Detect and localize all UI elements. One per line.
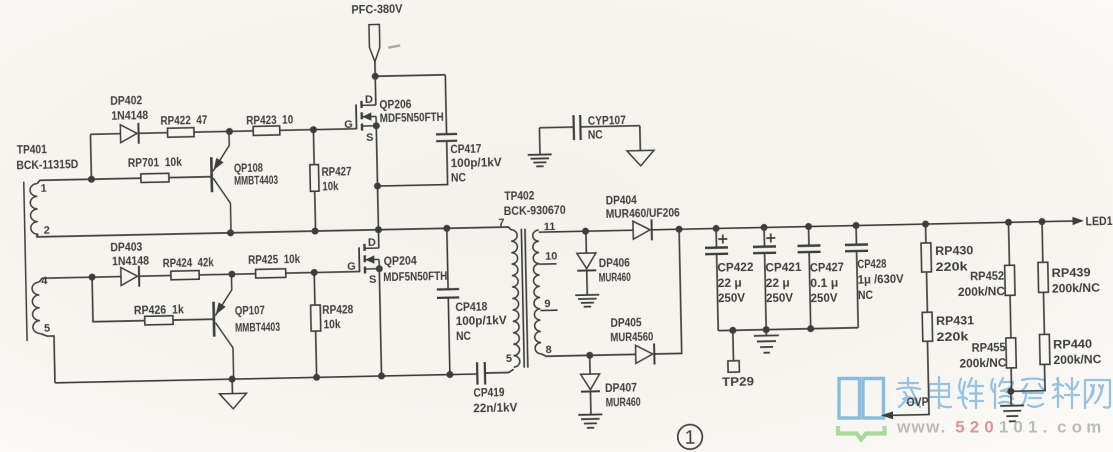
- svg-text:m: m: [1086, 418, 1101, 437]
- label MDF5N50FTH QP206: [380, 110, 444, 125]
- svg-text:MUR460: MUR460: [599, 270, 631, 285]
- junction rail / RP452: [1005, 219, 1012, 226]
- label CP419: [473, 385, 505, 400]
- svg-text:10: 10: [545, 250, 557, 262]
- wire RP423 to gate: [280, 129, 357, 131]
- polarity + CP422: [718, 234, 727, 243]
- resistor RP422: [167, 128, 194, 138]
- capacitor CP419: [477, 362, 485, 385]
- wire capacitor bus: [718, 328, 858, 331]
- svg-text:.: .: [1043, 418, 1048, 437]
- pin 5 TP401: [44, 322, 50, 334]
- junction bottom row / RP428: [313, 374, 320, 381]
- wire CP428 bottom lead: [857, 251, 859, 328]
- svg-text:200k/NC: 200k/NC: [959, 356, 1007, 371]
- wire pin1 row: [37, 178, 141, 183]
- value CP427 line2: [810, 275, 838, 290]
- transistor QP108: [211, 131, 231, 233]
- svg-text:5: 5: [955, 418, 964, 437]
- pin label D QP206: [365, 94, 373, 106]
- svg-text:5: 5: [506, 353, 512, 365]
- label RP424 42k: [163, 255, 215, 270]
- junction bus / CP421 ground: [763, 326, 770, 333]
- label DP404: [606, 193, 638, 208]
- winding TP402 secondary: [532, 230, 541, 354]
- label NC CP418: [456, 329, 472, 343]
- capacitor CP422: [705, 247, 728, 254]
- value 220k RP431: [936, 329, 969, 344]
- svg-text:LED1: LED1: [1085, 214, 1113, 229]
- wire RP439 top lead: [1041, 222, 1044, 263]
- svg-text:w: w: [925, 418, 940, 437]
- wire RP424 to node: [199, 274, 255, 275]
- value CP427 line3: [810, 291, 837, 306]
- svg-text:2: 2: [44, 224, 50, 236]
- resistor RP455: [1006, 338, 1016, 368]
- svg-text:1: 1: [40, 183, 46, 195]
- ground dividers: [1000, 405, 1024, 421]
- svg-text:PFC-380V: PFC-380V: [351, 2, 402, 17]
- testpoint TP29 pad: [728, 361, 740, 373]
- label CP418: [455, 299, 488, 314]
- junction QP206 source / CP417: [374, 182, 381, 189]
- svg-text:CP428: CP428: [857, 257, 887, 272]
- junction bottom row / CP418: [446, 371, 453, 378]
- svg-text:RP439: RP439: [1051, 265, 1091, 280]
- diode DP407: [581, 374, 600, 392]
- svg-text:200k/NC: 200k/NC: [1053, 352, 1102, 367]
- value CP422 line1: [717, 260, 754, 275]
- watermark char 网: [1085, 380, 1110, 408]
- wire pin2 to main row: [36, 234, 38, 237]
- label TP29: [722, 374, 755, 389]
- label CYP107: [588, 113, 627, 128]
- wire pin4 row: [39, 277, 121, 283]
- svg-text:RP424 42k: RP424 42k: [163, 255, 215, 270]
- svg-text:RP455: RP455: [971, 340, 1006, 355]
- wire CYP107 left ground stem: [538, 128, 541, 155]
- wire RP428 top lead: [313, 272, 316, 305]
- svg-text:MUR460: MUR460: [606, 395, 642, 410]
- wire RP426 to QP107 base: [173, 318, 214, 321]
- svg-text:100p/1kV: 100p/1kV: [451, 155, 502, 170]
- value MUR460/UF206 DP404: [606, 205, 681, 221]
- wire DP406 ground stem: [586, 270, 589, 295]
- wire RP425 to gate: [286, 272, 360, 274]
- value 100p/1kV CP418: [456, 313, 507, 328]
- wire pin10 stub: [539, 263, 556, 265]
- label RP426 1k: [134, 302, 185, 317]
- label TP402: [504, 188, 535, 203]
- label QP107: [235, 303, 266, 318]
- wire pin9 stub: [540, 309, 557, 311]
- diode DP406: [577, 253, 596, 271]
- svg-text:4: 4: [41, 275, 48, 287]
- svg-text:NC: NC: [456, 329, 472, 343]
- ground chassis CYP107: [627, 150, 654, 166]
- svg-text:0.1 μ: 0.1 μ: [810, 275, 838, 290]
- value 100p/1kV CP417: [451, 155, 502, 170]
- resistor RP423: [253, 126, 280, 136]
- label RP440: [1053, 337, 1093, 352]
- svg-text:DP403: DP403: [110, 240, 143, 255]
- svg-text:22n/1kV: 22n/1kV: [473, 400, 517, 415]
- junction bottom row / QP204: [378, 372, 385, 379]
- pin 2 TP401: [44, 224, 50, 236]
- label RP439: [1051, 265, 1091, 280]
- wire RP440 to junction: [1010, 364, 1045, 391]
- diode DP404: [633, 219, 652, 240]
- pin 5 TP402: [506, 353, 512, 365]
- svg-text:RP428: RP428: [322, 302, 354, 317]
- label MDF5N50FTH QP204: [383, 269, 447, 284]
- ground CP421: [754, 335, 779, 353]
- label DP407: [605, 380, 638, 395]
- pin 1 TP401: [40, 183, 46, 195]
- svg-text:200k/NC: 200k/NC: [1052, 281, 1101, 296]
- svg-text:CP421: CP421: [765, 260, 802, 275]
- svg-text:RP430: RP430: [935, 243, 974, 258]
- wire QP107 ground stem: [231, 379, 233, 393]
- wire CYP107 right: [580, 126, 639, 127]
- junction RP424/RP425/QP107: [228, 271, 235, 278]
- core TP402 line1: [521, 229, 524, 368]
- junction bottom row / QP107: [229, 376, 236, 383]
- svg-text:S: S: [366, 132, 374, 144]
- wire RP452 to RP455: [1009, 295, 1012, 338]
- value CP421 line2: [766, 275, 790, 289]
- pin 11 TP402: [544, 221, 556, 233]
- wire RP430 top lead: [925, 224, 927, 243]
- value CP428 line2: [858, 272, 904, 287]
- ground chassis bottom-left: [219, 393, 246, 409]
- svg-text:BCK-11315D: BCK-11315D: [16, 157, 79, 172]
- svg-text:TP402: TP402: [504, 188, 535, 203]
- svg-text:250V: 250V: [810, 291, 837, 306]
- watermark char 维: [958, 378, 983, 408]
- watermark char 家: [897, 378, 920, 407]
- junction rail / RP430: [922, 220, 929, 227]
- watermark char 料: [1053, 378, 1079, 408]
- junction RP423/RP427/gate: [310, 126, 317, 133]
- resistor RP430: [921, 243, 931, 272]
- resistor RP426: [145, 316, 173, 325]
- winding TP401 4-5: [32, 282, 40, 334]
- capacitor CP427: [797, 245, 820, 252]
- svg-text:1N4148: 1N4148: [111, 108, 149, 123]
- wire DP402 to RP422: [139, 132, 168, 135]
- junction pin4 row / RP426 vertical: [88, 274, 95, 281]
- junction pin8 / DP407: [586, 352, 593, 359]
- label RP425 10k: [248, 252, 301, 267]
- svg-text:RP423 10: RP423 10: [246, 112, 294, 127]
- svg-text:BCK-930670: BCK-930670: [504, 203, 567, 218]
- svg-text:8: 8: [545, 344, 551, 356]
- pin label D QP204: [368, 237, 376, 249]
- wire CP422 top lead: [715, 228, 717, 247]
- wire DP403 to RP424: [139, 274, 171, 277]
- svg-text:D: D: [365, 94, 373, 106]
- svg-text:CP427: CP427: [810, 260, 845, 275]
- svg-text:o: o: [1072, 418, 1082, 437]
- value MUR4560 DP405: [610, 329, 654, 344]
- svg-text:5: 5: [44, 322, 50, 334]
- junction main row / RP427: [311, 227, 318, 234]
- svg-text:RP701 10k: RP701 10k: [128, 155, 183, 170]
- label CP417: [450, 141, 482, 156]
- wire RP701 to QP108 base: [169, 176, 212, 179]
- value CP422 line3: [718, 291, 745, 306]
- value 22n/1kV CP419: [473, 400, 517, 415]
- wire CP422 bottom lead: [717, 254, 719, 331]
- winding TP401 1-2: [30, 184, 38, 235]
- wire bottom row: [55, 374, 477, 383]
- connector PFC-380V plug: [369, 24, 380, 61]
- svg-text:RP425 10k: RP425 10k: [248, 252, 301, 267]
- value BCK-11315D TP401: [16, 157, 79, 172]
- svg-text:1: 1: [684, 426, 695, 448]
- label TP401: [17, 142, 48, 157]
- wire RP427 top lead: [312, 130, 315, 165]
- pin 9 TP402: [544, 298, 550, 310]
- svg-text:TP401: TP401: [17, 142, 48, 157]
- svg-text:10k: 10k: [323, 317, 341, 331]
- label NC CYP107: [588, 128, 604, 142]
- wire RP452 top lead: [1008, 222, 1011, 265]
- label RP427: [321, 164, 352, 179]
- resistor RP428: [311, 305, 321, 331]
- svg-text:22 μ: 22 μ: [718, 275, 742, 289]
- svg-text:22 μ: 22 μ: [766, 275, 790, 289]
- svg-text:CYP107: CYP107: [588, 113, 627, 128]
- svg-text:0: 0: [984, 418, 993, 437]
- svg-text:1μ /630V: 1μ /630V: [858, 272, 904, 287]
- value MMBT4403 QP107: [235, 320, 281, 335]
- svg-text:1: 1: [999, 418, 1008, 437]
- svg-text:QP107: QP107: [235, 303, 266, 318]
- wire DP407 anode lead: [589, 355, 591, 374]
- svg-text:7: 7: [498, 217, 504, 229]
- pin 7 TP402: [498, 217, 504, 229]
- wire DP407 ground stem: [589, 391, 591, 414]
- svg-text:MUR4560: MUR4560: [610, 329, 654, 344]
- capacitor CYP107: [573, 115, 580, 140]
- svg-text:NC: NC: [451, 170, 467, 184]
- wire CP419 to pin5 TP402: [485, 369, 514, 373]
- wire pin5 path: [40, 333, 55, 383]
- junction RP455/RP440 ground: [1007, 388, 1014, 395]
- junction RP422/RP423/QP108: [226, 128, 233, 135]
- capacitor CP428: [845, 244, 868, 251]
- junction pin1 row / gate vertical: [88, 176, 95, 183]
- diode DP403: [121, 266, 140, 287]
- wire DP402 anode lead: [90, 133, 120, 136]
- wire RP439 to RP440: [1042, 292, 1045, 334]
- wire RP428 bottom lead: [315, 331, 318, 377]
- watermark book icon: [839, 379, 884, 419]
- svg-text:DP407: DP407: [605, 380, 638, 395]
- svg-text:MMBT4403: MMBT4403: [235, 320, 281, 335]
- junction rail / CP421: [761, 224, 768, 231]
- svg-text:MMBT4403: MMBT4403: [234, 173, 279, 188]
- label QP108: [234, 161, 264, 176]
- capacitor CP421: [753, 246, 776, 253]
- capacitor CP418: [437, 289, 459, 298]
- wire QP204 drain: [377, 230, 379, 249]
- label DP406: [599, 255, 631, 270]
- value 200k/NC RP439: [1052, 281, 1101, 296]
- wire CP417 top lead: [445, 75, 446, 134]
- wire CP418 top lead: [447, 228, 448, 289]
- svg-text:200k/NC: 200k/NC: [958, 284, 1006, 299]
- diode DP402: [120, 123, 139, 144]
- svg-text:220k: 220k: [936, 329, 969, 344]
- svg-text:RP426 1k: RP426 1k: [134, 302, 185, 317]
- wire CP421 ground stem: [765, 330, 767, 336]
- wire CP421 bottom lead: [765, 253, 767, 330]
- value CP428 line1: [857, 257, 887, 272]
- wire rail pin11 to DP404: [586, 229, 634, 232]
- label RP455: [971, 340, 1006, 355]
- wire QP206 source down: [376, 126, 378, 230]
- junction bus / TP29: [729, 327, 736, 334]
- junction main row / CP418: [443, 225, 450, 232]
- wire DP405 up to rail: [653, 229, 682, 354]
- wire DP406 anode lead: [585, 231, 587, 253]
- svg-text:DP406: DP406: [599, 255, 631, 270]
- svg-text:CP422: CP422: [717, 260, 754, 275]
- label RP452: [970, 269, 1005, 284]
- resistor RP452: [1005, 265, 1015, 295]
- value MMBT4403 QP108: [234, 173, 279, 188]
- value CP428 line3: [858, 288, 874, 302]
- capacitor CP417: [436, 134, 457, 141]
- arrow LED1: [1072, 217, 1083, 226]
- resistor RP431: [922, 312, 932, 341]
- label RP701 10k: [128, 155, 183, 170]
- svg-text:NC: NC: [588, 128, 604, 142]
- value 200k/NC RP452: [958, 284, 1006, 299]
- label DP403: [110, 240, 143, 255]
- resistor RP425: [256, 269, 286, 278]
- wire divider ground stem: [1010, 391, 1012, 405]
- wire CP417 bottom lead: [377, 141, 448, 186]
- junction rail / RP439: [1038, 218, 1045, 225]
- wire CP428 top lead: [855, 226, 857, 245]
- label DP405: [610, 315, 642, 330]
- svg-text:w: w: [896, 418, 911, 437]
- svg-text:.: .: [941, 418, 946, 437]
- value BCK-930670 TP402: [504, 203, 567, 218]
- junction PFC top rail: [372, 73, 379, 80]
- label LED1: [1085, 214, 1113, 229]
- ground CYP107 left: [528, 154, 552, 166]
- label PFC-380V: [351, 2, 402, 17]
- pin label G QP206: [344, 119, 353, 131]
- resistor RP439: [1038, 262, 1048, 292]
- transistor QP204: [359, 244, 383, 274]
- junction rail / CP422: [713, 225, 720, 232]
- resistor RP701: [141, 173, 169, 182]
- pin label S QP206: [366, 132, 374, 144]
- wire CP427 bottom lead: [809, 252, 811, 329]
- winding TP402 primary: [511, 230, 520, 367]
- watermark char 986: [991, 378, 1014, 408]
- watermark char 电: [929, 377, 951, 408]
- watermark char 资: [1021, 379, 1045, 407]
- svg-text:CP419: CP419: [473, 385, 505, 400]
- wire RP430 to RP431: [926, 272, 929, 312]
- svg-text:RP440: RP440: [1053, 337, 1093, 352]
- wire RP422 to node: [194, 131, 253, 132]
- wire PFC stem: [374, 62, 376, 76]
- svg-text:RP427: RP427: [321, 164, 352, 179]
- wire gate row left vertical: [89, 134, 92, 179]
- svg-text:MDF5N50FTH: MDF5N50FTH: [383, 269, 447, 284]
- label OVP: [906, 395, 928, 409]
- wire main row: [36, 227, 511, 240]
- wire CYP107 left: [539, 126, 573, 129]
- pin label S QP204: [369, 274, 377, 286]
- value 10k RP427: [322, 179, 339, 193]
- value 1N4148 DP403: [112, 254, 150, 269]
- junction DP405 / rail: [676, 226, 683, 233]
- pin 4 TP401: [41, 275, 48, 287]
- value MUR460 DP406: [599, 270, 631, 285]
- svg-text:250V: 250V: [766, 291, 793, 306]
- svg-text:1N4148: 1N4148: [112, 254, 150, 269]
- core TP402 line2: [525, 229, 528, 368]
- pin 10 TP402: [545, 250, 557, 262]
- wire top rail: [375, 75, 445, 76]
- svg-text:G: G: [347, 261, 356, 273]
- svg-text:250V: 250V: [718, 291, 745, 306]
- svg-text:9: 9: [544, 298, 550, 310]
- arrow OVP: [881, 411, 893, 419]
- svg-text:DP402: DP402: [110, 93, 143, 108]
- junction main row / QP204 drain: [375, 226, 382, 233]
- value 1N4148 DP402: [111, 108, 149, 123]
- wire TP29 stub: [732, 330, 735, 360]
- diode DP405: [635, 343, 654, 364]
- svg-text:D: D: [368, 237, 376, 249]
- resistor RP427: [310, 165, 319, 192]
- polarity + CP421: [766, 233, 775, 242]
- wire CP421 top lead: [763, 227, 765, 246]
- svg-text:w: w: [911, 418, 926, 437]
- svg-text:10k: 10k: [322, 179, 339, 193]
- label RP430: [935, 243, 974, 258]
- wire RP431 to OVP: [891, 341, 929, 415]
- svg-text:TP29: TP29: [722, 374, 755, 389]
- figure number circle 1: [677, 424, 702, 449]
- svg-text:OVP: OVP: [906, 395, 928, 409]
- pin 8 TP402: [545, 344, 551, 356]
- value CP421 line1: [765, 260, 802, 275]
- wire QP204 source down: [379, 269, 381, 376]
- wire QP206 drain: [374, 76, 377, 105]
- watermark url www.520101.com: [896, 418, 1101, 437]
- junction rail / CP427: [805, 223, 812, 230]
- wire pin8 row: [541, 352, 635, 356]
- junction rail / CP428: [852, 222, 859, 229]
- label RP428: [322, 302, 354, 317]
- value CP421 line3: [766, 291, 793, 306]
- transistor QP107: [213, 274, 234, 379]
- stray pencil dash: [388, 45, 400, 47]
- svg-text:NC: NC: [858, 288, 874, 302]
- svg-text:c: c: [1057, 418, 1066, 437]
